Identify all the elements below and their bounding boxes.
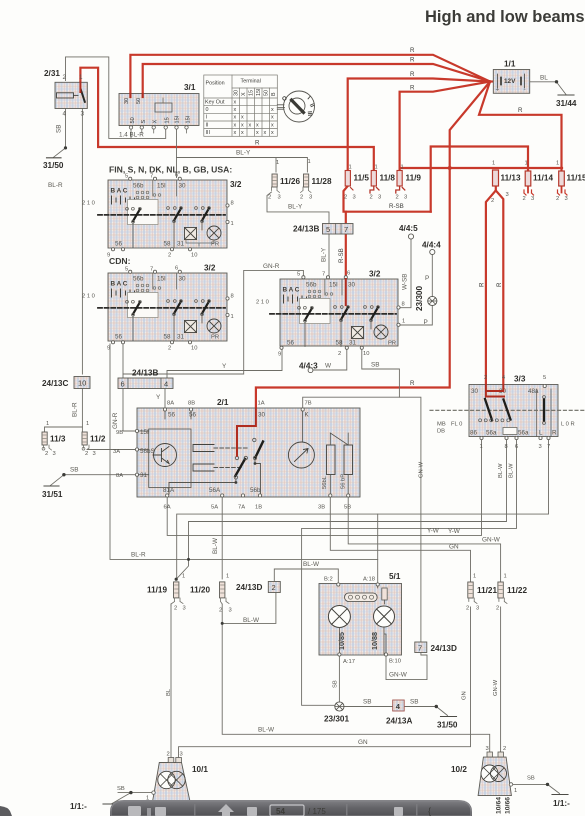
svg-text:x: x	[234, 130, 237, 136]
svg-text:3: 3	[378, 195, 381, 201]
svg-text:BL-W: BL-W	[498, 463, 504, 478]
svg-text:MB: MB	[437, 422, 446, 428]
toolbar overlay	[110, 800, 472, 816]
svg-text:x: x	[241, 115, 244, 121]
svg-text:2: 2	[268, 195, 271, 201]
svg-text:3: 3	[353, 195, 356, 201]
svg-text:11/15: 11/15	[567, 174, 585, 183]
svg-text:3/2: 3/2	[369, 270, 381, 279]
svg-text:GN-R: GN-R	[112, 412, 119, 429]
svg-text:PR: PR	[388, 341, 396, 347]
ground symbols	[44, 95, 574, 804]
svg-text:10/85: 10/85	[337, 632, 346, 650]
svg-text:BL: BL	[540, 75, 548, 82]
svg-text:3: 3	[93, 451, 96, 457]
svg-text:11/26: 11/26	[280, 177, 300, 186]
svg-text:30: 30	[124, 98, 130, 104]
svg-text:30: 30	[471, 388, 479, 395]
svg-text:30: 30	[179, 183, 187, 190]
ignition switch 3/1	[119, 83, 199, 139]
red inside 2/1 from 1A to contact	[237, 410, 256, 456]
connector 24/13A cell 4	[386, 700, 412, 726]
svg-text:7: 7	[418, 644, 422, 653]
svg-text:W: W	[325, 363, 332, 370]
svg-text:1: 1	[231, 314, 234, 320]
svg-text:56b: 56b	[250, 487, 261, 494]
red wire interior overlays	[80, 83, 504, 456]
red inside 3/1 pins	[130, 94, 142, 97]
connector 24/13D cell 2	[236, 582, 280, 593]
svg-text:11/5: 11/5	[354, 174, 370, 183]
svg-text:Key Out: Key Out	[205, 100, 225, 106]
fuse 11/28	[300, 159, 332, 201]
svg-text:1/1: 1/1	[504, 60, 516, 69]
svg-text:30: 30	[258, 412, 266, 419]
svg-text:3: 3	[81, 111, 85, 118]
wire SB 23/301 to 24/13A-4 and ground 31/50	[344, 706, 436, 708]
svg-text:GN-W: GN-W	[493, 679, 499, 696]
svg-text:3: 3	[180, 752, 183, 758]
ignition position table	[204, 75, 277, 136]
svg-text:1.4 BL-R: 1.4 BL-R	[119, 132, 144, 139]
svg-text:7: 7	[344, 225, 348, 234]
svg-text:x: x	[241, 122, 244, 128]
svg-text:Position: Position	[206, 81, 225, 87]
svg-text:2: 2	[338, 351, 341, 357]
svg-text:3: 3	[476, 606, 479, 612]
svg-text:R: R	[410, 71, 415, 78]
svg-text:11/9: 11/9	[406, 174, 422, 183]
svg-text:W-SB: W-SB	[402, 273, 409, 290]
svg-text:31: 31	[177, 334, 185, 341]
svg-text:BL: BL	[166, 688, 172, 696]
wire R jog feeding 11/14	[431, 147, 528, 212]
svg-text:P: P	[425, 275, 429, 282]
svg-text:GN-W: GN-W	[419, 461, 425, 478]
svg-text:II: II	[308, 103, 315, 109]
wire BL-Y fuse 11/26 output to 24/13B-5	[267, 192, 329, 224]
svg-text:1: 1	[46, 421, 49, 427]
sensor 4/4:3	[299, 362, 380, 373]
svg-text:15I: 15I	[174, 115, 180, 123]
fuse 11/21	[466, 574, 497, 612]
wire R battery feed to fuse 11/5	[348, 79, 490, 172]
svg-text:2: 2	[491, 198, 494, 204]
wire R battery feed to 11/15 via right loop	[479, 82, 562, 172]
svg-text:GN-W: GN-W	[389, 672, 408, 679]
svg-text:15: 15	[165, 117, 171, 123]
svg-text:81A: 81A	[163, 487, 175, 494]
wire Y-W 2/1 6A to 3/3 pin1	[167, 438, 481, 535]
wire GN-W 24/13D-7 to 5/1 B:10	[386, 653, 427, 680]
svg-text:B A C: B A C	[111, 281, 128, 288]
svg-text:24/13D: 24/13D	[431, 644, 457, 653]
svg-text:0: 0	[206, 107, 209, 113]
fuse 11/15 output hook	[561, 186, 563, 193]
svg-text:Y: Y	[222, 363, 227, 370]
svg-text:11/21: 11/21	[477, 586, 497, 595]
svg-text:1/1:-: 1/1:-	[70, 802, 87, 811]
svg-text:8: 8	[231, 294, 234, 300]
svg-text:1: 1	[182, 574, 185, 580]
svg-text:7: 7	[322, 272, 325, 278]
svg-text:6: 6	[515, 444, 518, 450]
svg-text:56: 56	[168, 412, 176, 419]
svg-text:56bS: 56bS	[140, 448, 155, 455]
svg-text:2: 2	[219, 608, 222, 614]
svg-text:7: 7	[150, 267, 153, 273]
bottom-left toolbar corner fragment	[0, 806, 12, 816]
svg-text:31: 31	[140, 472, 148, 479]
svg-text:x: x	[264, 130, 267, 136]
svg-text:DB: DB	[437, 429, 445, 435]
wire 11/19 pin1 riser to 3/3 pin7 line	[177, 438, 549, 579]
svg-text:8: 8	[231, 201, 234, 207]
svg-text:15: 15	[249, 90, 255, 96]
svg-text:50: 50	[264, 90, 270, 96]
wire SB 5/1 A:17 to 23/301	[338, 657, 340, 703]
svg-text:1: 1	[308, 159, 311, 165]
2/1 relay circle	[288, 442, 314, 468]
svg-text:O: O	[281, 95, 289, 103]
2/1 bottom pins	[166, 494, 350, 497]
svg-text:PR: PR	[211, 335, 219, 341]
svg-text:SB: SB	[527, 776, 535, 782]
svg-text:CDN:: CDN:	[109, 256, 131, 266]
svg-text:1: 1	[401, 165, 404, 171]
svg-text:56: 56	[287, 340, 295, 347]
svg-text:6: 6	[121, 380, 125, 389]
wire BL-W 24/13D-2 to 5/1 B:2	[274, 569, 338, 583]
relay module 2/1	[113, 398, 360, 511]
svg-text:30: 30	[234, 90, 240, 96]
wire 11/2 pin3 to 2/1 pin 3A	[87, 449, 137, 451]
svg-text:24/13B: 24/13B	[293, 225, 319, 234]
svg-text:6: 6	[175, 173, 178, 179]
svg-text:1: 1	[556, 161, 559, 167]
svg-text:24/13A: 24/13A	[386, 717, 412, 726]
svg-text:1: 1	[349, 165, 352, 171]
svg-text:L: L	[539, 430, 543, 437]
svg-text:1A: 1A	[258, 401, 265, 407]
battery 1/1	[493, 60, 577, 109]
ground 31/44	[558, 94, 574, 96]
light switch 3/2 middle variant	[256, 270, 405, 358]
svg-text:3: 3	[404, 195, 407, 201]
lamp PR in FIN 3/2	[207, 226, 221, 240]
svg-text:1: 1	[231, 221, 234, 227]
svg-text:58: 58	[336, 340, 344, 347]
svg-text:2: 2	[484, 375, 487, 381]
fuse 11/14	[523, 161, 554, 203]
wire R long drop from bus to 2/1 pin 1A	[256, 168, 450, 410]
wire BL-Y to fuses 11/26 11/28	[177, 158, 308, 173]
svg-text:56: 56	[115, 334, 123, 341]
wire SB lamp 10/2 pin1 to ground 1/1:-	[512, 783, 548, 785]
svg-text:R: R	[518, 107, 523, 114]
svg-text:2/1: 2/1	[217, 398, 229, 407]
svg-text:1: 1	[402, 319, 405, 325]
svg-text:3: 3	[531, 196, 534, 202]
svg-text:SB: SB	[363, 699, 372, 706]
red bars inside 3/3	[486, 385, 504, 397]
wire R battery feed diagonal to fuse bus	[450, 82, 490, 169]
headlamp 10/1	[70, 752, 208, 812]
svg-text:23/300: 23/300	[415, 286, 424, 311]
svg-text:{: {	[428, 806, 431, 816]
svg-text:x: x	[271, 130, 274, 136]
svg-text:3: 3	[278, 195, 281, 201]
sensor 4/4:5	[399, 224, 418, 290]
svg-text:5/1: 5/1	[389, 572, 401, 581]
svg-text:24/13C: 24/13C	[42, 379, 68, 388]
svg-text:11/22: 11/22	[507, 586, 527, 595]
lamp PR in CDN 3/2	[207, 319, 221, 333]
wire table link to key	[277, 107, 284, 109]
svg-text:BL-Y: BL-Y	[288, 204, 303, 211]
svg-text:GN: GN	[462, 691, 468, 700]
wire SB 31/51 to 2/1 pin 31	[64, 474, 137, 476]
svg-text:II: II	[206, 122, 209, 128]
svg-text:4: 4	[502, 375, 506, 381]
svg-text:15I: 15I	[329, 282, 338, 289]
svg-text:2: 2	[168, 346, 171, 352]
svg-text:31/50: 31/50	[437, 721, 458, 730]
wire battery 1/1 to ground 31/44	[530, 81, 557, 83]
svg-text:6A: 6A	[164, 505, 171, 511]
svg-text:9: 9	[278, 352, 281, 358]
connector 24/13B strip cells 6 and 4	[112, 363, 227, 429]
svg-text:7: 7	[547, 444, 550, 450]
svg-text:2: 2	[174, 606, 177, 612]
svg-text:-: -	[524, 87, 526, 94]
svg-text:R: R	[552, 430, 557, 437]
ground 31/50 lower	[441, 716, 457, 718]
2/1 left pins	[135, 429, 138, 476]
wire A:18 riser	[377, 514, 379, 583]
dimmer switch 3/3	[419, 375, 585, 479]
wire 24/13C to fuses 11/3 11/2	[81, 389, 83, 428]
svg-text:54: 54	[276, 807, 285, 816]
svg-text:5: 5	[125, 267, 128, 273]
fuse 11/15	[556, 161, 585, 203]
svg-text:A:17: A:17	[343, 659, 355, 665]
svg-text:10/64: 10/64	[496, 797, 503, 814]
svg-text:2 1 0: 2 1 0	[82, 201, 95, 207]
wire R battery feed to 3/1 pin30	[130, 55, 490, 95]
svg-text:Y: Y	[156, 394, 161, 401]
svg-text:3/2: 3/2	[230, 180, 242, 189]
svg-text:24/13D: 24/13D	[236, 583, 262, 592]
svg-text:15I: 15I	[140, 429, 149, 436]
svg-text:31/50: 31/50	[43, 161, 64, 170]
svg-text:11/13: 11/13	[501, 174, 521, 183]
wire K 2/1 pin 7B to 24/13D-7 riser	[303, 397, 400, 409]
svg-text:50: 50	[136, 98, 142, 104]
svg-text:2: 2	[45, 451, 48, 457]
relay 2/31	[43, 69, 87, 170]
label BL-Y lower	[288, 204, 303, 211]
svg-text:2: 2	[85, 451, 88, 457]
instrument cluster 5/1	[319, 572, 402, 665]
svg-text:5: 5	[125, 174, 128, 180]
wire R from 2/31 pin1 to fuse 11/8	[80, 68, 373, 171]
svg-text:3: 3	[309, 195, 312, 201]
svg-text:BL-W: BL-W	[258, 727, 275, 734]
label BL-Y upper	[236, 150, 251, 157]
svg-text:GN: GN	[449, 544, 459, 551]
svg-text:5: 5	[543, 375, 546, 381]
svg-text:BL-R: BL-R	[131, 552, 146, 559]
svg-text:9: 9	[107, 346, 110, 352]
sensor 4/4:4	[422, 241, 441, 327]
svg-text:SB: SB	[117, 786, 125, 792]
wire BL fuse 11/19 output to lamp 10/1 pin2	[170, 604, 172, 758]
svg-text:R: R	[496, 282, 503, 287]
svg-text:x: x	[271, 115, 274, 121]
svg-text:2: 2	[466, 606, 469, 612]
svg-text:3B: 3B	[318, 505, 325, 511]
ground 1/1:- left	[103, 803, 119, 805]
svg-text:SB: SB	[56, 125, 63, 133]
svg-text:+: +	[496, 87, 500, 94]
svg-text:31: 31	[349, 340, 357, 347]
svg-text:4/4:5: 4/4:5	[399, 224, 418, 233]
svg-text:10/66: 10/66	[505, 797, 512, 814]
svg-text:1: 1	[79, 74, 83, 81]
ground 31/50 lower label	[437, 721, 458, 730]
svg-text:R: R	[410, 380, 415, 387]
lamp square in CDN 3/2	[185, 321, 197, 333]
svg-text:56b: 56b	[306, 282, 317, 289]
red inside middle 3/2 to contact	[345, 279, 347, 305]
svg-text:15I: 15I	[256, 89, 262, 97]
fuse 11/13	[491, 161, 521, 205]
svg-text:/ 175: / 175	[308, 807, 326, 816]
svg-text:GN-R: GN-R	[263, 263, 280, 270]
svg-text:Y-W: Y-W	[448, 528, 461, 535]
svg-text:31: 31	[177, 241, 185, 248]
wire R fuse 11/13 output split legs to 3/3	[486, 186, 496, 385]
lamp square in middle 3/2	[352, 327, 364, 339]
svg-text:6: 6	[175, 266, 178, 272]
wire R fuse bus 11/13 11/14 11/15	[400, 167, 562, 169]
wire BL-W 2/1 5A to fuse 11/20	[221, 497, 223, 579]
2/1 relay contact blades	[235, 442, 263, 477]
svg-text:B: B	[271, 92, 277, 96]
svg-text:2: 2	[168, 253, 171, 259]
bulb 10/85	[328, 606, 350, 628]
svg-text:7B: 7B	[305, 401, 312, 407]
svg-text:48a: 48a	[528, 388, 539, 395]
svg-text:2: 2	[300, 195, 303, 201]
ground 1/1:- right	[552, 794, 568, 796]
lamp PR in middle 3/2	[374, 325, 388, 339]
wire 2/31 pin3 BL-R down to 24/13C	[81, 109, 83, 375]
svg-text:B:2: B:2	[324, 577, 333, 583]
svg-text:2: 2	[272, 583, 276, 592]
svg-text:10: 10	[191, 346, 197, 352]
svg-text:56: 56	[115, 241, 123, 248]
svg-text:7A: 7A	[238, 505, 245, 511]
svg-text:11/8: 11/8	[380, 174, 396, 183]
svg-text:BL-Y: BL-Y	[236, 150, 251, 157]
svg-text:III: III	[306, 111, 312, 117]
svg-text:31/44: 31/44	[556, 99, 577, 108]
svg-text:5: 5	[297, 272, 300, 278]
svg-text:1: 1	[504, 574, 507, 580]
wire GN-W 2/1 5B to fuse 11/22	[348, 497, 500, 582]
wire 3/3 pin6 down-run to 23/301 SB net	[302, 438, 517, 705]
wire GN-W fuse 11/22 output to lamp 10/2 pin2	[500, 607, 502, 752]
2/1 left pin stubs	[139, 431, 149, 475]
fuse 11/20	[190, 574, 232, 614]
svg-text:FL 0: FL 0	[451, 422, 462, 428]
svg-text:x: x	[234, 122, 237, 128]
ground 31/50 top left	[47, 157, 62, 159]
svg-text:BL-W: BL-W	[509, 463, 515, 478]
svg-text:2/31: 2/31	[44, 69, 60, 78]
svg-text:8: 8	[505, 444, 508, 450]
svg-text:1: 1	[276, 160, 279, 166]
wire W-SB 4/4:5 to 3/2 pin8	[399, 239, 411, 308]
fuse 11/3	[42, 421, 66, 457]
wire GN-R 24/13B-6 to 2/1 pin 15I	[123, 389, 137, 432]
svg-text:x: x	[256, 130, 259, 136]
svg-text:3: 3	[229, 608, 232, 614]
svg-text:x: x	[234, 100, 237, 106]
svg-text:3/3: 3/3	[514, 375, 526, 384]
svg-text:30: 30	[179, 276, 187, 283]
indicator 23/300	[415, 286, 437, 311]
svg-text:11/19: 11/19	[147, 586, 167, 595]
wire P 4/4:4 via 23/300 to 3/2 pin1	[399, 255, 432, 326]
svg-text:3: 3	[539, 444, 542, 450]
svg-text:4: 4	[164, 380, 168, 389]
svg-text:1: 1	[473, 574, 476, 580]
wire GN 2/1 3B to fuse 11/21	[330, 497, 470, 582]
light switch 3/2 CDN variant	[82, 256, 234, 352]
svg-text:3/2: 3/2	[204, 264, 216, 273]
svg-text:5B: 5B	[344, 505, 351, 511]
svg-text:Terminal: Terminal	[241, 79, 261, 85]
wire BL-R CDN 3/2 pin9 down and right	[110, 344, 378, 559]
svg-text:6: 6	[347, 271, 350, 277]
svg-text:SB: SB	[410, 699, 419, 706]
svg-text:3: 3	[183, 606, 186, 612]
svg-text:5: 5	[326, 225, 330, 234]
wire GN fuse 11/21 output to lamp 10/1 pin3	[179, 607, 471, 758]
wire SB 3/2 pin10 to 24/13D-7 (GN-W)	[362, 349, 421, 642]
svg-text:11/20: 11/20	[190, 586, 210, 595]
svg-text:R-SB: R-SB	[338, 248, 345, 263]
svg-text:2: 2	[396, 195, 399, 201]
svg-text:2: 2	[496, 606, 499, 612]
headlamp 10/2	[451, 746, 570, 814]
svg-text:A:18: A:18	[363, 577, 375, 583]
svg-text:2 1 0: 2 1 0	[82, 294, 95, 300]
svg-text:BL-R: BL-R	[48, 182, 63, 189]
svg-text:High and low beams: High and low beams	[425, 8, 585, 26]
svg-text:3: 3	[506, 192, 509, 198]
svg-text:1: 1	[480, 444, 483, 450]
svg-text:56b: 56b	[133, 276, 144, 283]
svg-text:3: 3	[53, 451, 56, 457]
wire W 3/2 pin2 to 4/4:3	[313, 349, 347, 370]
svg-text:8: 8	[402, 302, 405, 308]
connector 24/13B cells 5 and 7	[293, 224, 353, 263]
2/1 inner frame and transistor	[149, 429, 191, 488]
